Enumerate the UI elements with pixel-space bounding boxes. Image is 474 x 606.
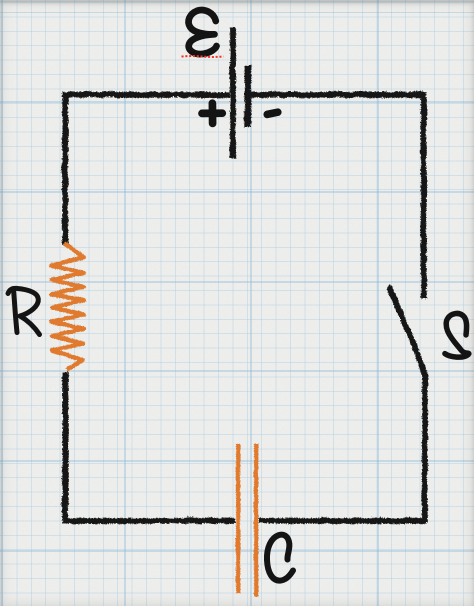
label: minus sign: [267, 112, 278, 114]
label: R: [8, 288, 40, 334]
battery E: short negative plate: [243, 64, 249, 126]
switch S: blade: [389, 288, 425, 375]
label: C: [267, 535, 293, 581]
red squiggle under epsilon: [182, 55, 224, 58]
wire: top wire right half + right vertical down to switch gap: [250, 94, 423, 298]
wire: right vertical below switch + bottom wire to capacitor right plate: [258, 375, 424, 520]
label: EMF script epsilon: [189, 10, 217, 54]
wire: left vertical below resistor + bottom wire to capacitor left plate: [64, 371, 234, 520]
capacitor C: left plate: [235, 443, 239, 593]
capacitor C: right plate: [253, 443, 257, 596]
resistor R: orange zigzag: [51, 243, 83, 370]
wire: top-left loop (top wire left half + left vertical down to resistor): [64, 94, 229, 245]
battery E: long positive plate: [229, 26, 235, 157]
label: plus sign: [202, 103, 222, 123]
label: S: [445, 313, 469, 357]
